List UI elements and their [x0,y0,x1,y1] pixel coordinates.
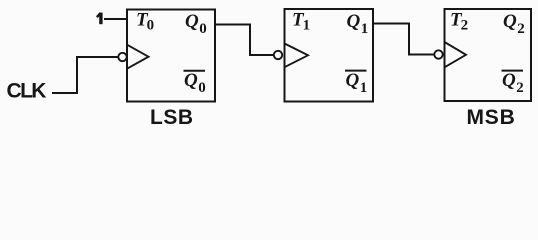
clock edge triangle T1 [285,44,309,68]
svg-text:CLK: CLK [7,80,47,103]
wire Q1 to T2 clock input [373,24,434,55]
wire logic-1 to T0 input [104,18,127,20]
pin label Q0 [185,11,207,37]
pin label Q1-bar [345,70,367,96]
pin label Q1 [347,11,369,37]
node logic-1 label [97,13,101,25]
pin label Q2 [503,11,525,37]
pin label T1 [292,10,310,34]
flip-flop T1 box [285,9,374,102]
svg-text:LSB: LSB [150,106,194,129]
clock edge triangle T0 [127,45,149,69]
pin label Q2-bar [502,70,524,96]
wire CLK to T0 clock input [52,57,118,93]
pin label T2 [450,10,468,34]
label MSB [467,106,516,129]
flip-flop T0 box [127,10,215,102]
pin label Q0-bar [184,70,206,96]
wire Q0 to T1 clock input [215,25,274,56]
pin label T0 [136,10,154,34]
flip-flop T2 box [445,9,532,101]
clock edge triangle T2 [445,42,467,67]
clock bubble T0 [118,53,126,61]
label CLK [7,80,47,103]
svg-text:MSB: MSB [467,106,516,129]
clock bubble T2 [434,50,442,58]
label LSB [150,106,194,129]
clock bubble T1 [274,51,282,59]
